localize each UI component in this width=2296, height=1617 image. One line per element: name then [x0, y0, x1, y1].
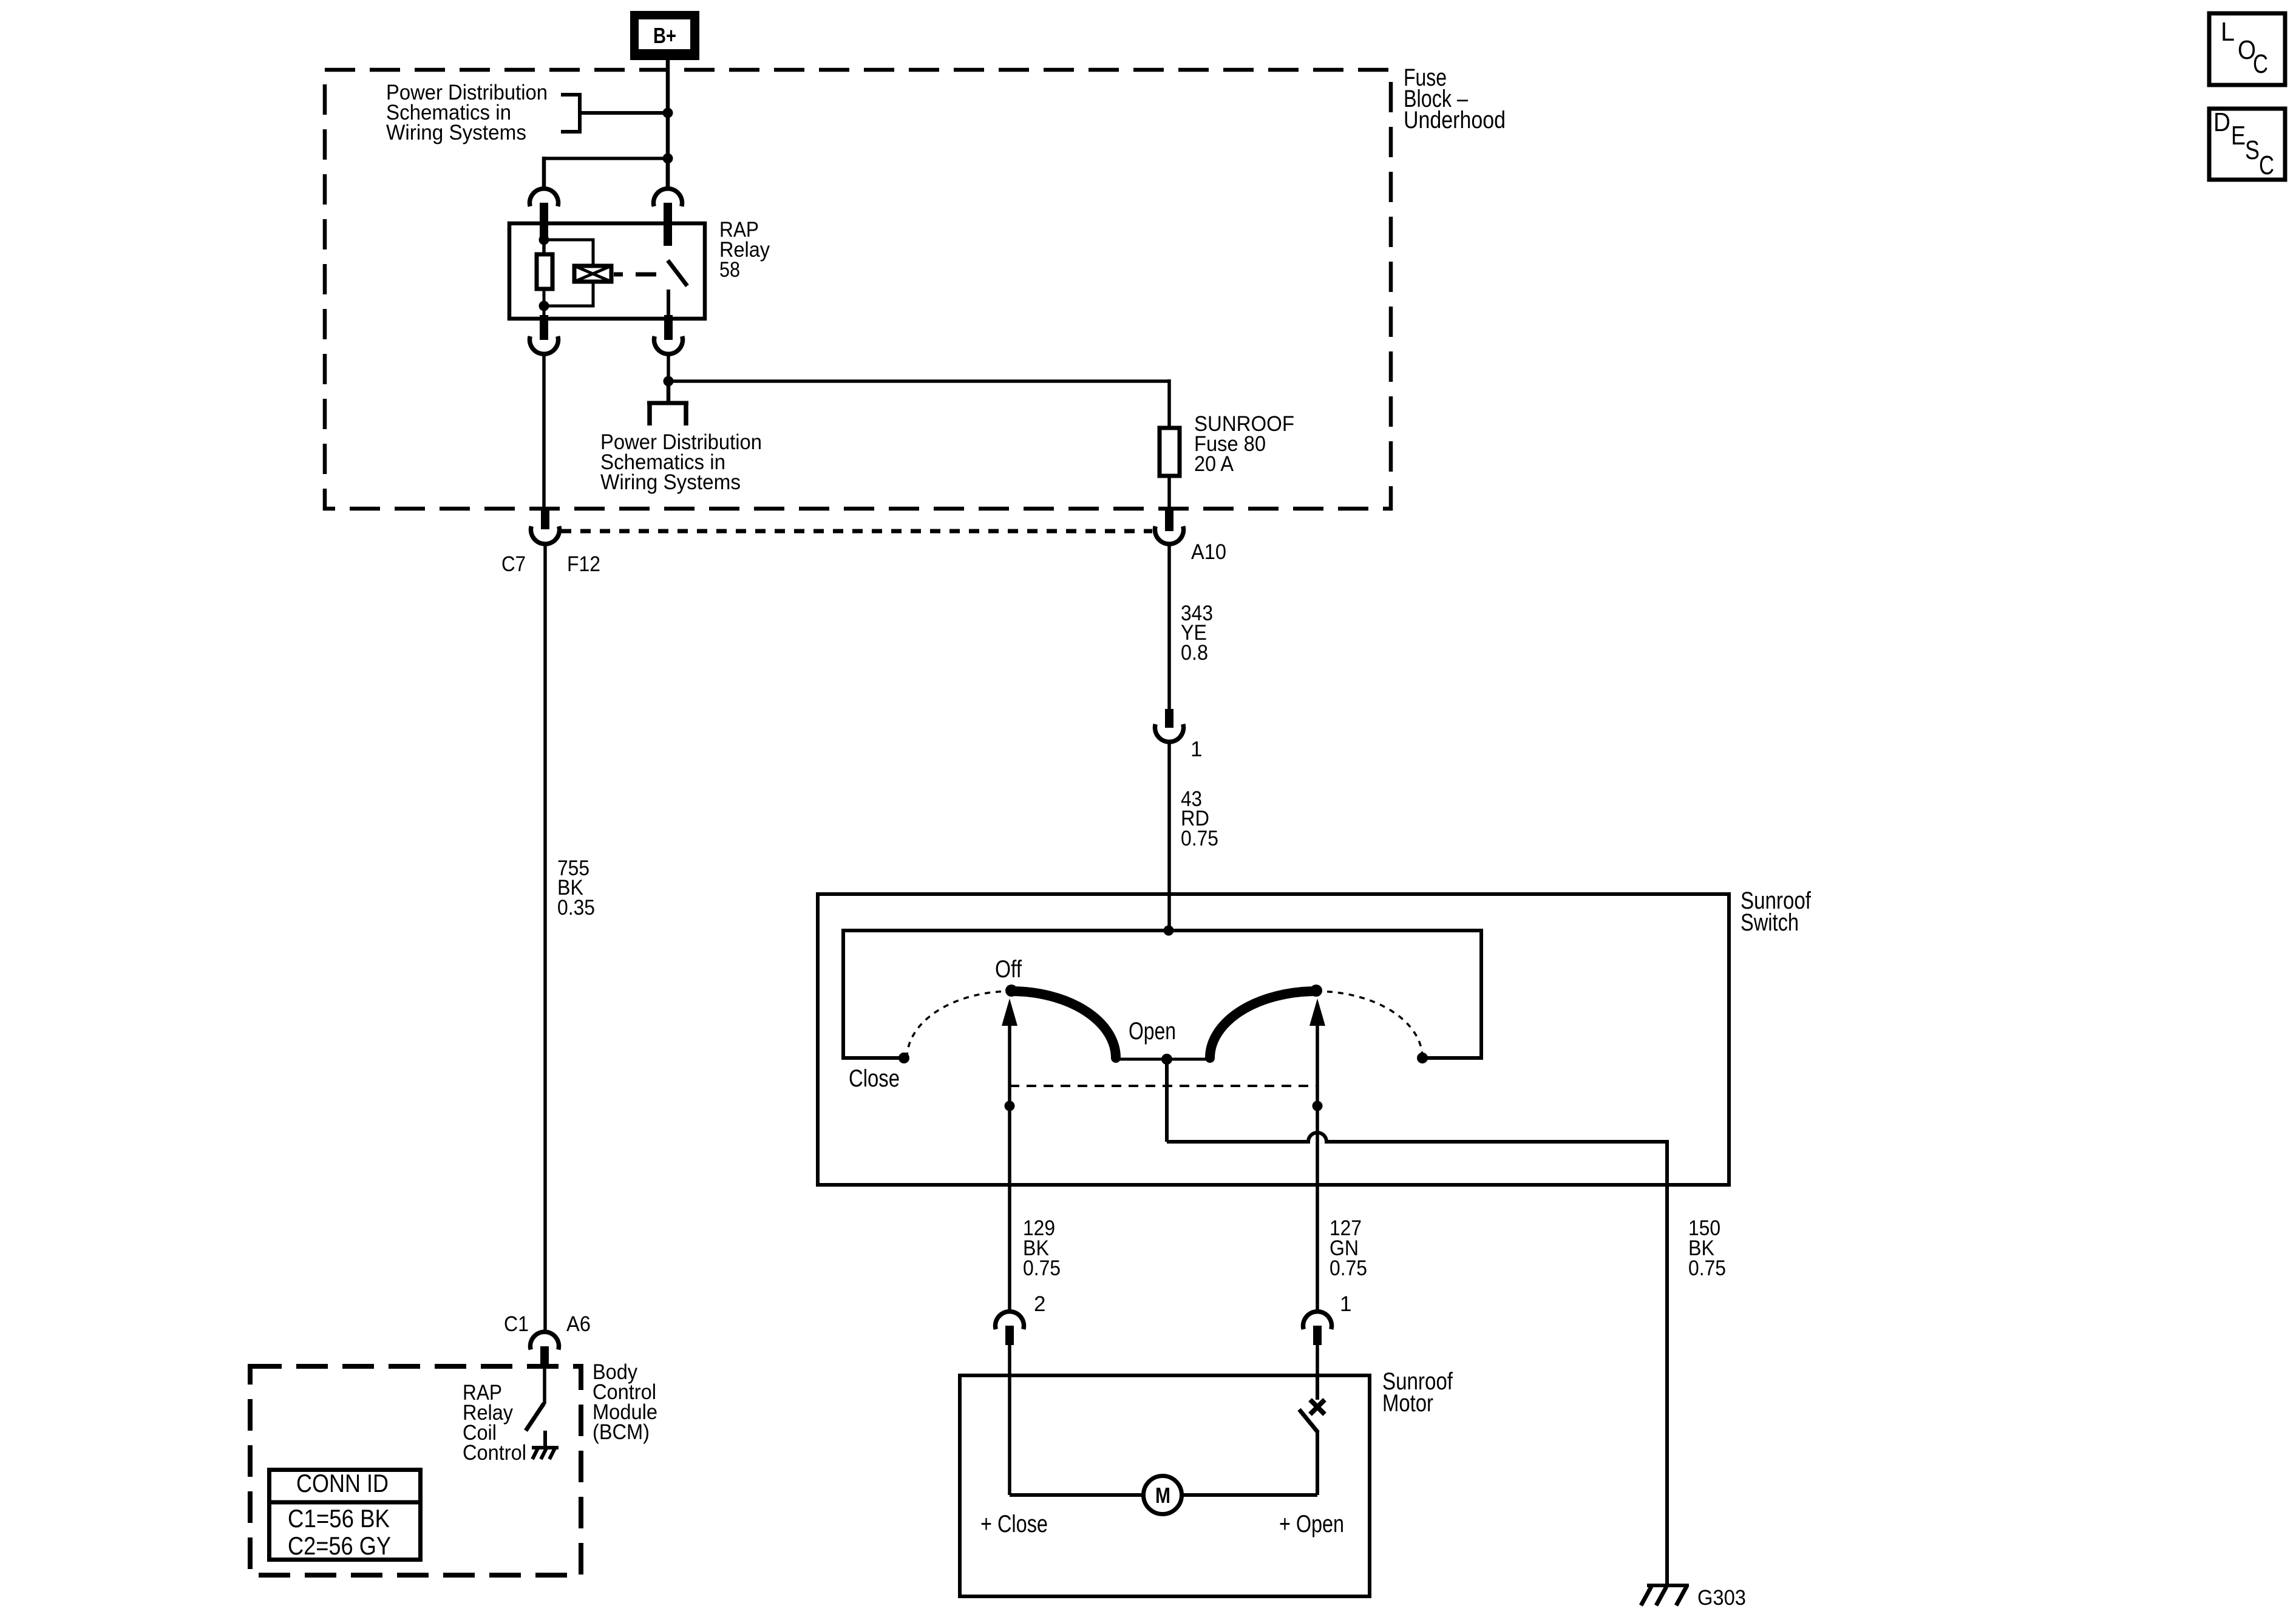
svg-text:+ Close: + Close	[980, 1511, 1048, 1537]
svg-text:C7: C7	[501, 552, 526, 576]
svg-text:Wiring Systems: Wiring Systems	[600, 470, 741, 494]
svg-text:C: C	[2253, 49, 2268, 79]
svg-text:2: 2	[1034, 1292, 1045, 1316]
svg-text:L: L	[2221, 17, 2235, 47]
svg-text:Underhood: Underhood	[1404, 107, 1506, 134]
svg-text:20 A: 20 A	[1194, 452, 1234, 476]
svg-text:0.75: 0.75	[1330, 1256, 1367, 1280]
svg-text:Off: Off	[995, 956, 1022, 983]
svg-text:0.75: 0.75	[1688, 1256, 1726, 1280]
svg-text:Motor: Motor	[1382, 1390, 1433, 1417]
svg-text:Wiring Systems: Wiring Systems	[386, 121, 526, 144]
svg-text:S: S	[2245, 135, 2260, 165]
svg-text:M: M	[1155, 1483, 1170, 1508]
svg-text:+ Open: + Open	[1279, 1511, 1344, 1537]
svg-text:Switch: Switch	[1741, 909, 1799, 936]
svg-text:D: D	[2213, 107, 2230, 137]
svg-text:1: 1	[1190, 737, 1202, 761]
svg-text:E: E	[2231, 121, 2246, 151]
svg-text:B+: B+	[653, 23, 676, 48]
svg-text:C: C	[2259, 151, 2274, 180]
svg-text:CONN ID: CONN ID	[296, 1469, 389, 1497]
svg-text:1: 1	[1340, 1292, 1351, 1316]
svg-text:G303: G303	[1697, 1586, 1746, 1610]
svg-text:C2=56 GY: C2=56 GY	[288, 1531, 391, 1560]
svg-text:0.75: 0.75	[1023, 1256, 1061, 1280]
svg-text:(BCM): (BCM)	[593, 1420, 650, 1444]
svg-text:A10: A10	[1191, 540, 1226, 564]
svg-text:A6: A6	[566, 1312, 591, 1336]
svg-text:Open: Open	[1129, 1018, 1176, 1045]
svg-text:0.35: 0.35	[557, 896, 595, 920]
svg-text:C1=56 BK: C1=56 BK	[288, 1504, 390, 1533]
svg-text:0.75: 0.75	[1181, 827, 1218, 850]
svg-text:F12: F12	[567, 552, 600, 576]
svg-text:Control: Control	[463, 1441, 526, 1465]
svg-text:0.8: 0.8	[1181, 641, 1208, 665]
svg-text:58: 58	[719, 258, 740, 282]
svg-text:C1: C1	[504, 1312, 529, 1336]
svg-text:Close: Close	[849, 1065, 900, 1092]
